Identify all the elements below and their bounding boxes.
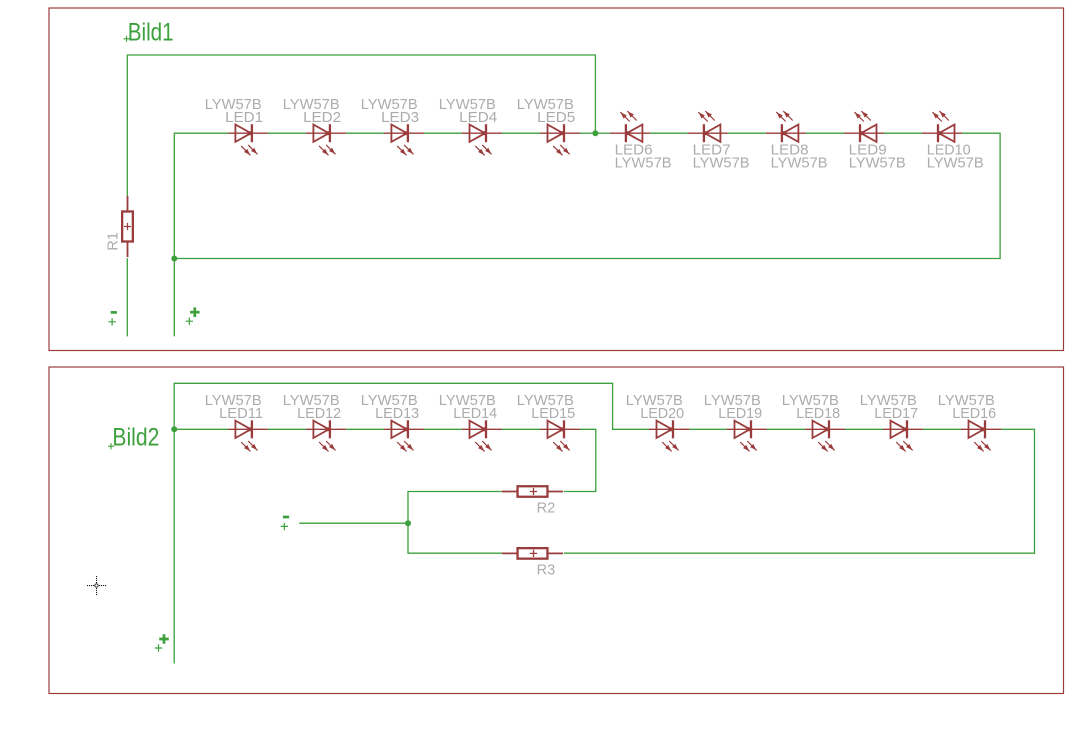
svg-text:LYW57B: LYW57B [615, 155, 672, 172]
svg-text:LYW57B: LYW57B [693, 155, 750, 172]
svg-text:LED20: LED20 [640, 405, 684, 422]
svg-text:LYW57B: LYW57B [771, 155, 828, 172]
svg-text:LED17: LED17 [874, 405, 918, 422]
svg-text:LYW57B: LYW57B [927, 155, 984, 172]
svg-text:LED11: LED11 [219, 405, 263, 422]
svg-text:Bild2: Bild2 [112, 423, 159, 451]
svg-text:R3: R3 [537, 561, 556, 578]
svg-text:LED19: LED19 [718, 405, 762, 422]
svg-text:LED16: LED16 [952, 405, 996, 422]
svg-text:LED1: LED1 [225, 109, 263, 126]
svg-text:LED5: LED5 [537, 109, 575, 126]
svg-text:LED4: LED4 [459, 109, 497, 126]
svg-text:R1: R1 [105, 232, 122, 251]
svg-text:LED15: LED15 [531, 405, 575, 422]
svg-text:LED14: LED14 [453, 405, 497, 422]
svg-text:LED13: LED13 [375, 405, 419, 422]
svg-text:LED12: LED12 [297, 405, 341, 422]
svg-text:LED18: LED18 [796, 405, 840, 422]
svg-text:LED2: LED2 [303, 109, 341, 126]
svg-text:LYW57B: LYW57B [849, 155, 906, 172]
svg-text:R2: R2 [537, 500, 556, 517]
svg-text:Bild1: Bild1 [128, 19, 174, 47]
svg-text:LED3: LED3 [381, 109, 419, 126]
